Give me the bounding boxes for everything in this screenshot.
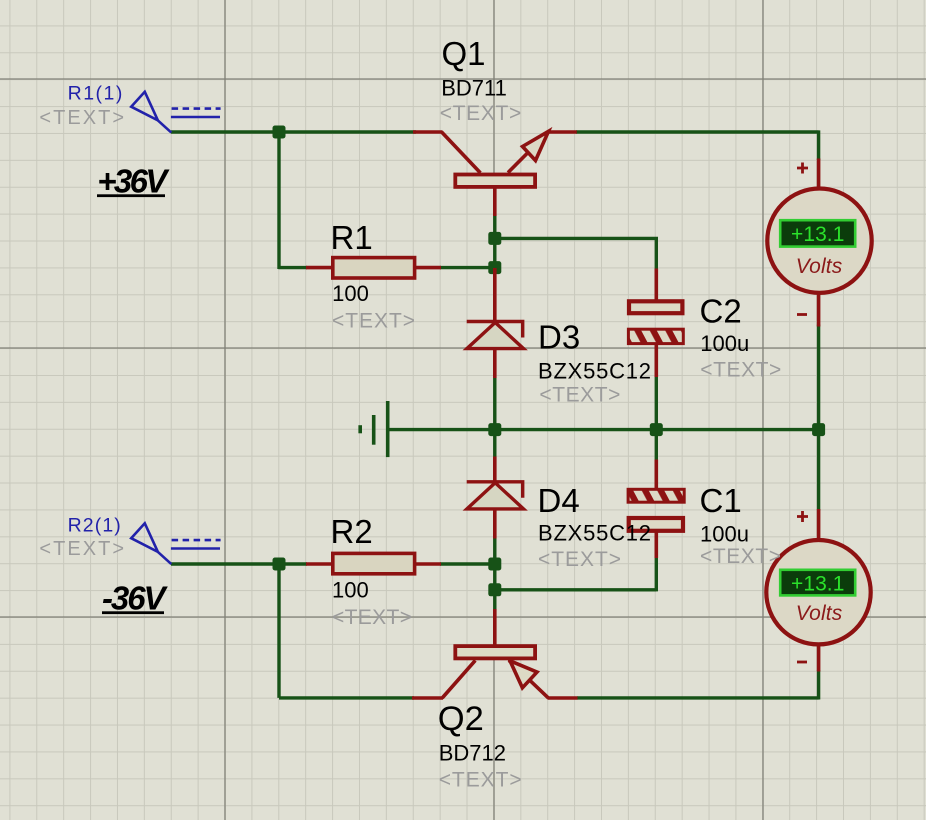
svg-text:<TEXT>: <TEXT> [332,606,412,629]
svg-text:D3: D3 [538,318,580,355]
svg-text:C2: C2 [700,292,742,329]
svg-text:<TEXT>: <TEXT> [700,545,781,568]
svg-text:+13.1: +13.1 [791,223,844,246]
svg-text:<TEXT>: <TEXT> [440,102,522,125]
svg-text:<TEXT>: <TEXT> [39,107,124,129]
svg-text:100u: 100u [700,522,749,547]
svg-text:<TEXT>: <TEXT> [539,383,620,406]
svg-text:R1: R1 [331,219,373,256]
svg-text:<TEXT>: <TEXT> [538,548,621,571]
svg-text:Volts: Volts [796,602,843,625]
svg-text:BD711: BD711 [441,76,507,101]
svg-text:-36V: -36V [102,580,168,617]
svg-text:<TEXT>: <TEXT> [39,538,124,560]
svg-text:<TEXT>: <TEXT> [332,310,415,333]
svg-text:C1: C1 [700,482,742,519]
svg-text:100: 100 [332,578,369,603]
svg-text:+36V: +36V [97,163,170,200]
svg-text:Q1: Q1 [442,35,486,72]
svg-text:100u: 100u [700,331,749,356]
svg-text:BZX55C12: BZX55C12 [538,358,651,383]
svg-text:100: 100 [332,281,369,306]
svg-text:R2: R2 [331,513,373,550]
svg-text:R1(1): R1(1) [68,82,123,104]
svg-text:<TEXT>: <TEXT> [700,359,781,382]
svg-text:BZX55C12: BZX55C12 [538,521,651,546]
svg-text:Volts: Volts [796,255,843,278]
svg-text:BD712: BD712 [439,741,506,766]
svg-text:+13.1: +13.1 [791,573,844,596]
svg-text:Q2: Q2 [438,700,484,738]
svg-text:<TEXT>: <TEXT> [439,769,522,792]
svg-text:R2(1): R2(1) [68,514,121,536]
svg-text:D4: D4 [538,482,580,519]
